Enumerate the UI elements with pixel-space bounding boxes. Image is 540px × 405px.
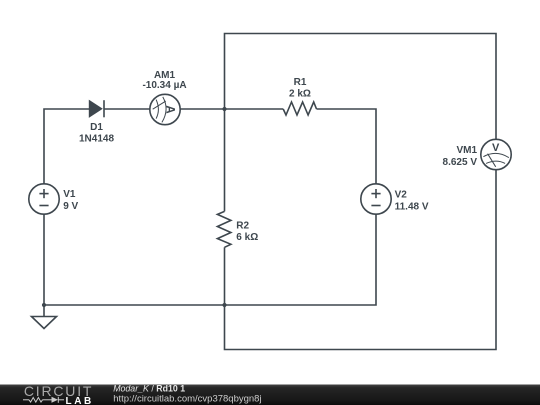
- node junction at ground: [42, 303, 46, 307]
- svg-text:8.625 V: 8.625 V: [443, 157, 478, 168]
- node junction at R2 bottom: [222, 303, 226, 307]
- svg-text:VM1: VM1: [456, 145, 477, 156]
- voltage source V2: [361, 184, 391, 214]
- wire D1 to AM1: [104, 108, 150, 110]
- svg-text:2 kΩ: 2 kΩ: [289, 88, 311, 99]
- wire R2 branch upper: [224, 109, 226, 211]
- svg-text:V: V: [492, 142, 500, 154]
- ammeter AM1: [150, 94, 180, 124]
- svg-text:http://circuitlab.com/cvp378qb: http://circuitlab.com/cvp378qbygn8j: [113, 394, 261, 405]
- wire V1 bottom to ground node: [43, 214, 45, 317]
- wire top rail: [225, 34, 497, 140]
- svg-text:R1: R1: [294, 77, 307, 88]
- svg-text:1N4148: 1N4148: [79, 133, 114, 144]
- wire AM1 to R1: [180, 108, 283, 110]
- wire R1 to V2 top: [317, 109, 377, 184]
- wire main rail V1 to D1: [44, 109, 89, 184]
- svg-text:V2: V2: [395, 190, 408, 201]
- svg-text:R2: R2: [236, 220, 249, 231]
- diode D1 1N4148: [89, 100, 104, 117]
- svg-text:11.48 V: 11.48 V: [395, 202, 429, 213]
- node junction at AM1/R1/top-rail: [222, 107, 226, 111]
- wire V2 bottom to bottom rail: [44, 214, 376, 305]
- svg-text:LAB: LAB: [66, 396, 94, 405]
- svg-text:Modar_K / Rd10 1: Modar_K / Rd10 1: [113, 383, 185, 393]
- svg-text:9 V: 9 V: [63, 201, 78, 212]
- footer bar: [0, 385, 540, 405]
- resistor R1 2 kOhm: [283, 102, 316, 115]
- resistor R2 6 kOhm: [217, 211, 231, 247]
- logo circuit glyph: wire, resistor zigzag, diode: [23, 397, 64, 403]
- wire R2 branch lower: [224, 247, 226, 305]
- voltmeter VM1: [481, 139, 511, 169]
- wire right vertical lower: [225, 170, 497, 350]
- svg-text:6 kΩ: 6 kΩ: [236, 232, 258, 243]
- svg-text:D1: D1: [90, 122, 103, 133]
- svg-text:-10.34 µA: -10.34 µA: [142, 80, 186, 91]
- ground: [32, 317, 57, 329]
- voltage source V1: [29, 184, 59, 214]
- svg-text:V1: V1: [63, 189, 76, 200]
